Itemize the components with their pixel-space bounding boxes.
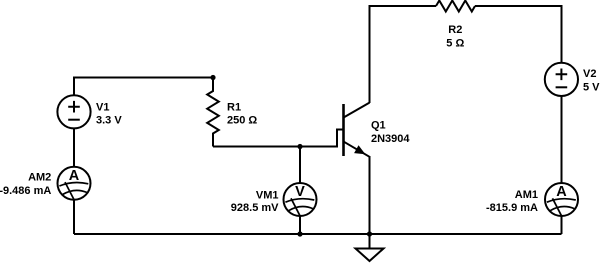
wire V2 to AM1 [561, 96, 563, 183]
resistor R2 [436, 1, 475, 12]
ground [356, 249, 384, 262]
svg-text:R1: R1 [227, 101, 241, 113]
wire VM1 bottom lead [299, 216, 301, 234]
svg-text:250 Ω: 250 Ω [227, 115, 257, 127]
node VM1 bottom junction dot [297, 231, 302, 236]
svg-text:V1: V1 [96, 102, 109, 114]
wire Q1 emitter down [369, 156, 371, 234]
svg-text:5 Ω: 5 Ω [446, 37, 464, 49]
transistor Q1 emitter line with arrow [344, 142, 370, 157]
label Q1 2N3904 [371, 120, 410, 145]
transistor Q1 base bar [342, 104, 345, 156]
wire bottom rail [74, 233, 562, 235]
svg-text:928.5 mV: 928.5 mV [231, 202, 279, 214]
label VM1 928.5 mV [231, 190, 279, 215]
svg-text:5 V: 5 V [583, 81, 600, 93]
ammeter AM2 [58, 167, 91, 200]
svg-text:AM1: AM1 [515, 189, 538, 201]
wire V1 to AM2 [73, 128, 75, 166]
svg-text:2N3904: 2N3904 [371, 133, 410, 145]
label AM1 -815.9 mA [486, 189, 538, 214]
svg-text:-9.486 mA: -9.486 mA [0, 185, 51, 197]
ammeter AM1 [545, 183, 578, 216]
wire AM2 to bottom rail [73, 200, 75, 234]
resistor R1 [207, 78, 219, 147]
wire ground stub [369, 234, 371, 249]
node VM1 top junction dot [297, 144, 302, 149]
svg-text:3.3 V: 3.3 V [96, 114, 122, 126]
svg-text:A: A [69, 168, 80, 184]
wire R2 to V2 [475, 6, 562, 63]
label V1 3.3 V [96, 102, 122, 127]
label V2 5 V [583, 68, 600, 93]
wire V1 top to R1 top [74, 78, 213, 96]
svg-text:R2: R2 [448, 24, 462, 36]
svg-text:A: A [556, 184, 567, 200]
wire AM1 bottom lead [561, 216, 563, 234]
svg-text:V: V [295, 184, 305, 200]
voltmeter VM1 [284, 183, 317, 216]
label R1 250 Ω [227, 101, 257, 126]
label AM2 -9.486 mA [0, 172, 51, 197]
wire R1 bottom to Q1 base [213, 130, 343, 147]
svg-text:AM2: AM2 [28, 172, 51, 184]
label R2 5 Ω [446, 24, 464, 49]
svg-text:VM1: VM1 [256, 190, 279, 202]
voltage source V1 [57, 95, 90, 128]
node R1 top junction dot [210, 75, 215, 80]
transistor Q1 collector line [344, 103, 370, 118]
svg-text:V2: V2 [583, 68, 596, 80]
node emitter/ground junction dot [367, 231, 372, 236]
wire Q1 collector up and top rail with R2 gap [370, 6, 437, 103]
svg-text:-815.9 mA: -815.9 mA [486, 202, 538, 214]
wire VM1 top lead [299, 147, 301, 184]
voltage source V2 [545, 63, 578, 96]
svg-text:Q1: Q1 [371, 120, 386, 132]
